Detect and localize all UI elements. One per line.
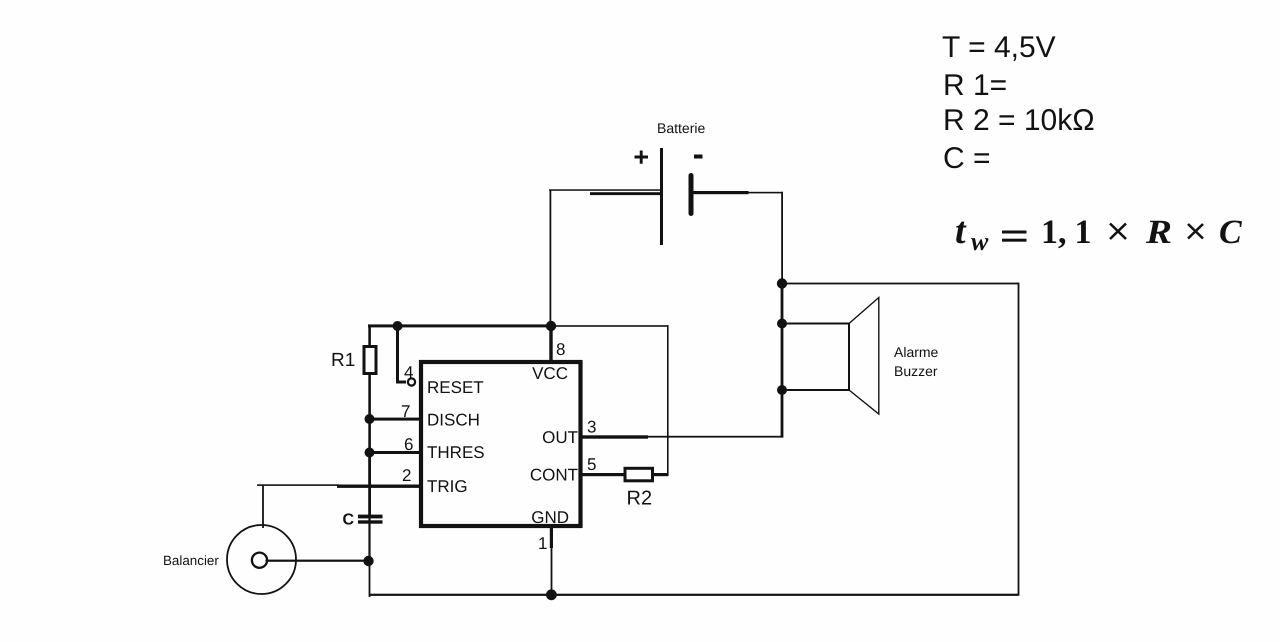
wire right vertical long [1018,283,1020,596]
node dot top R1 junction [393,321,403,331]
svg-text:Batterie: Batterie [657,120,705,136]
svg-text:R1: R1 [331,350,355,371]
node dot buzzer terminal top [777,319,787,329]
node dot VCC junction [546,321,556,331]
wire TRIG thin from balancier [257,484,339,486]
wire top thin continuation [551,325,668,327]
svg-text:R2: R2 [627,488,653,510]
node dot capacitor bottom junction [363,556,373,566]
resistor R1 [364,347,376,374]
wire R1 top [368,326,371,348]
wire GND pin thin [551,548,553,595]
wire junction to bottom rail [369,561,371,597]
resistor R2 [625,468,653,481]
node dot buzzer top [777,278,787,288]
balancier outer circle [227,525,296,594]
svg-text:TRIG: TRIG [427,477,468,496]
svg-text:2: 2 [402,466,411,485]
svg-text:6: 6 [404,435,413,454]
svg-text:7: 7 [401,402,410,421]
svg-text:RESET: RESET [427,378,484,397]
battery negative plate [689,173,694,216]
svg-text:R: R [1145,214,1172,251]
svg-text:OUT: OUT [542,428,578,447]
svg-text:R 2 = 10kΩ: R 2 = 10kΩ [943,104,1095,137]
wire pin 8 [549,326,552,362]
wire pin6 [370,451,420,454]
balancier inner circle [252,553,267,568]
wire top thick VCC rail [368,324,552,327]
node dot buzzer terminal bottom [777,385,787,395]
wire GND pin stub thick [550,526,553,548]
svg-text:4: 4 [404,363,413,382]
wire battery right thick [694,191,749,194]
wire battery left vertical drop [550,190,552,327]
wire OUT thick [582,435,648,438]
battery plus sign [635,151,649,164]
wire balancier to junction [266,560,369,562]
wire OUT thin [648,436,783,438]
pin 4 bubble [408,378,415,385]
capacitor C plates [358,515,383,519]
wire battery right thin [748,192,783,194]
svg-text:,: , [1058,214,1067,251]
svg-text:Alarme: Alarme [894,344,939,360]
wire drop to R2 right [667,325,669,475]
svg-text:1: 1 [1041,214,1058,251]
svg-text:GND: GND [531,508,569,527]
balancier riser wire [262,485,264,528]
svg-text:t: t [955,210,967,252]
IC 555 body [421,362,581,526]
svg-text:3: 3 [587,418,596,437]
svg-text:R 1=: R 1= [943,69,1007,102]
buzzer cone [849,298,879,415]
wire battery left thick [590,192,661,195]
wire bottom horizontal [370,594,1019,596]
svg-text:VCC: VCC [532,364,568,383]
node dot THRES junction [365,448,375,458]
svg-text:8: 8 [556,340,565,359]
wire capacitor top vertical [368,453,371,515]
svg-text:DISCH: DISCH [427,411,480,430]
svg-text:C =: C = [943,142,991,175]
svg-text:Buzzer: Buzzer [894,363,938,379]
buzzer body rectangle [782,324,849,391]
svg-text:1: 1 [538,534,547,553]
svg-text:C: C [1219,214,1242,251]
svg-text:5: 5 [587,455,596,474]
battery positive plate [660,148,663,245]
wire pin4 drop [398,326,407,382]
svg-text:Balancier: Balancier [163,553,219,568]
wire TRIG thick [337,485,420,488]
node dot GND bottom junction [546,589,557,600]
wire R1 bottom to junctions [368,373,371,454]
wire battery left thin [549,189,662,191]
wire buzzer vertical [781,284,784,437]
svg-text:C: C [343,512,355,529]
svg-text:T = 4,5V: T = 4,5V [942,31,1056,64]
wire top right horizontal [782,283,1019,285]
wire right vertical to buzzer [781,192,783,284]
formula tw = 1,1 x R x C [955,210,1242,256]
wire pin7 [370,418,420,421]
svg-text:CONT: CONT [530,466,578,485]
battery minus sign [694,155,703,159]
wire CONT left stub [582,473,625,476]
svg-text:1: 1 [1075,214,1092,251]
svg-text:THRES: THRES [427,443,485,462]
wire capacitor bottom vertical [368,514,370,561]
wire OUT vertical joint at buzzer [781,436,784,438]
wire CONT right stub [653,473,669,476]
node dot DISCH junction [365,414,375,424]
svg-text:w: w [971,227,989,256]
